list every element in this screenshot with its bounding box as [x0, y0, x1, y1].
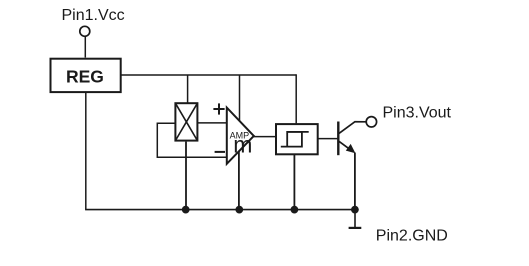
wire ground rail	[85, 209, 355, 211]
wire hall left terminal feedback to amp minus input	[157, 123, 226, 157]
wire amp output to schmitt input	[253, 136, 275, 138]
minus sign at amp input	[215, 151, 225, 153]
hall element X1	[175, 103, 197, 140]
wire amp bottom to ground rail	[238, 151, 240, 210]
transistor Q1 collector wire	[339, 122, 366, 134]
junction dot hall/ground	[182, 206, 190, 214]
terminal circle Pin1	[80, 26, 90, 36]
wire schmitt output to transistor base	[318, 138, 337, 140]
regulator REG	[51, 59, 121, 92]
schmitt trigger U2	[276, 124, 318, 154]
plus sign at amp input	[213, 103, 224, 114]
svg-text:Pin1.Vcc: Pin1.Vcc	[62, 7, 125, 24]
op-amp U1 AMP	[227, 108, 254, 164]
svg-text:Pin3.Vout: Pin3.Vout	[383, 104, 452, 121]
transistor Q1 base bar	[337, 122, 339, 156]
terminal circle Pin3	[366, 117, 376, 127]
wire REG bottom to ground rail	[85, 93, 87, 210]
svg-text:Pin2.GND: Pin2.GND	[376, 227, 448, 244]
junction dot emitter/ground	[351, 206, 359, 214]
svg-text:REG: REG	[66, 67, 104, 87]
ground symbol	[349, 210, 362, 228]
junction dot schmitt/ground	[291, 206, 299, 214]
wire rail to amp top	[239, 75, 241, 121]
wire Pin1 to REG	[84, 37, 86, 58]
wire rail end to schmitt top	[295, 74, 297, 123]
wire schmitt bottom to ground rail	[293, 155, 295, 210]
wire rail to hall element top	[187, 75, 189, 103]
svg-text:m: m	[233, 132, 252, 158]
wire hall element bottom to ground rail	[185, 142, 187, 210]
wire top rail from REG	[121, 74, 296, 76]
transistor Q1 emitter wire with arrow	[339, 141, 356, 153]
junction dot amp/ground	[235, 206, 243, 214]
wire hall right terminal to amp plus input	[198, 122, 227, 124]
wire emitter to ground rail	[354, 153, 356, 210]
